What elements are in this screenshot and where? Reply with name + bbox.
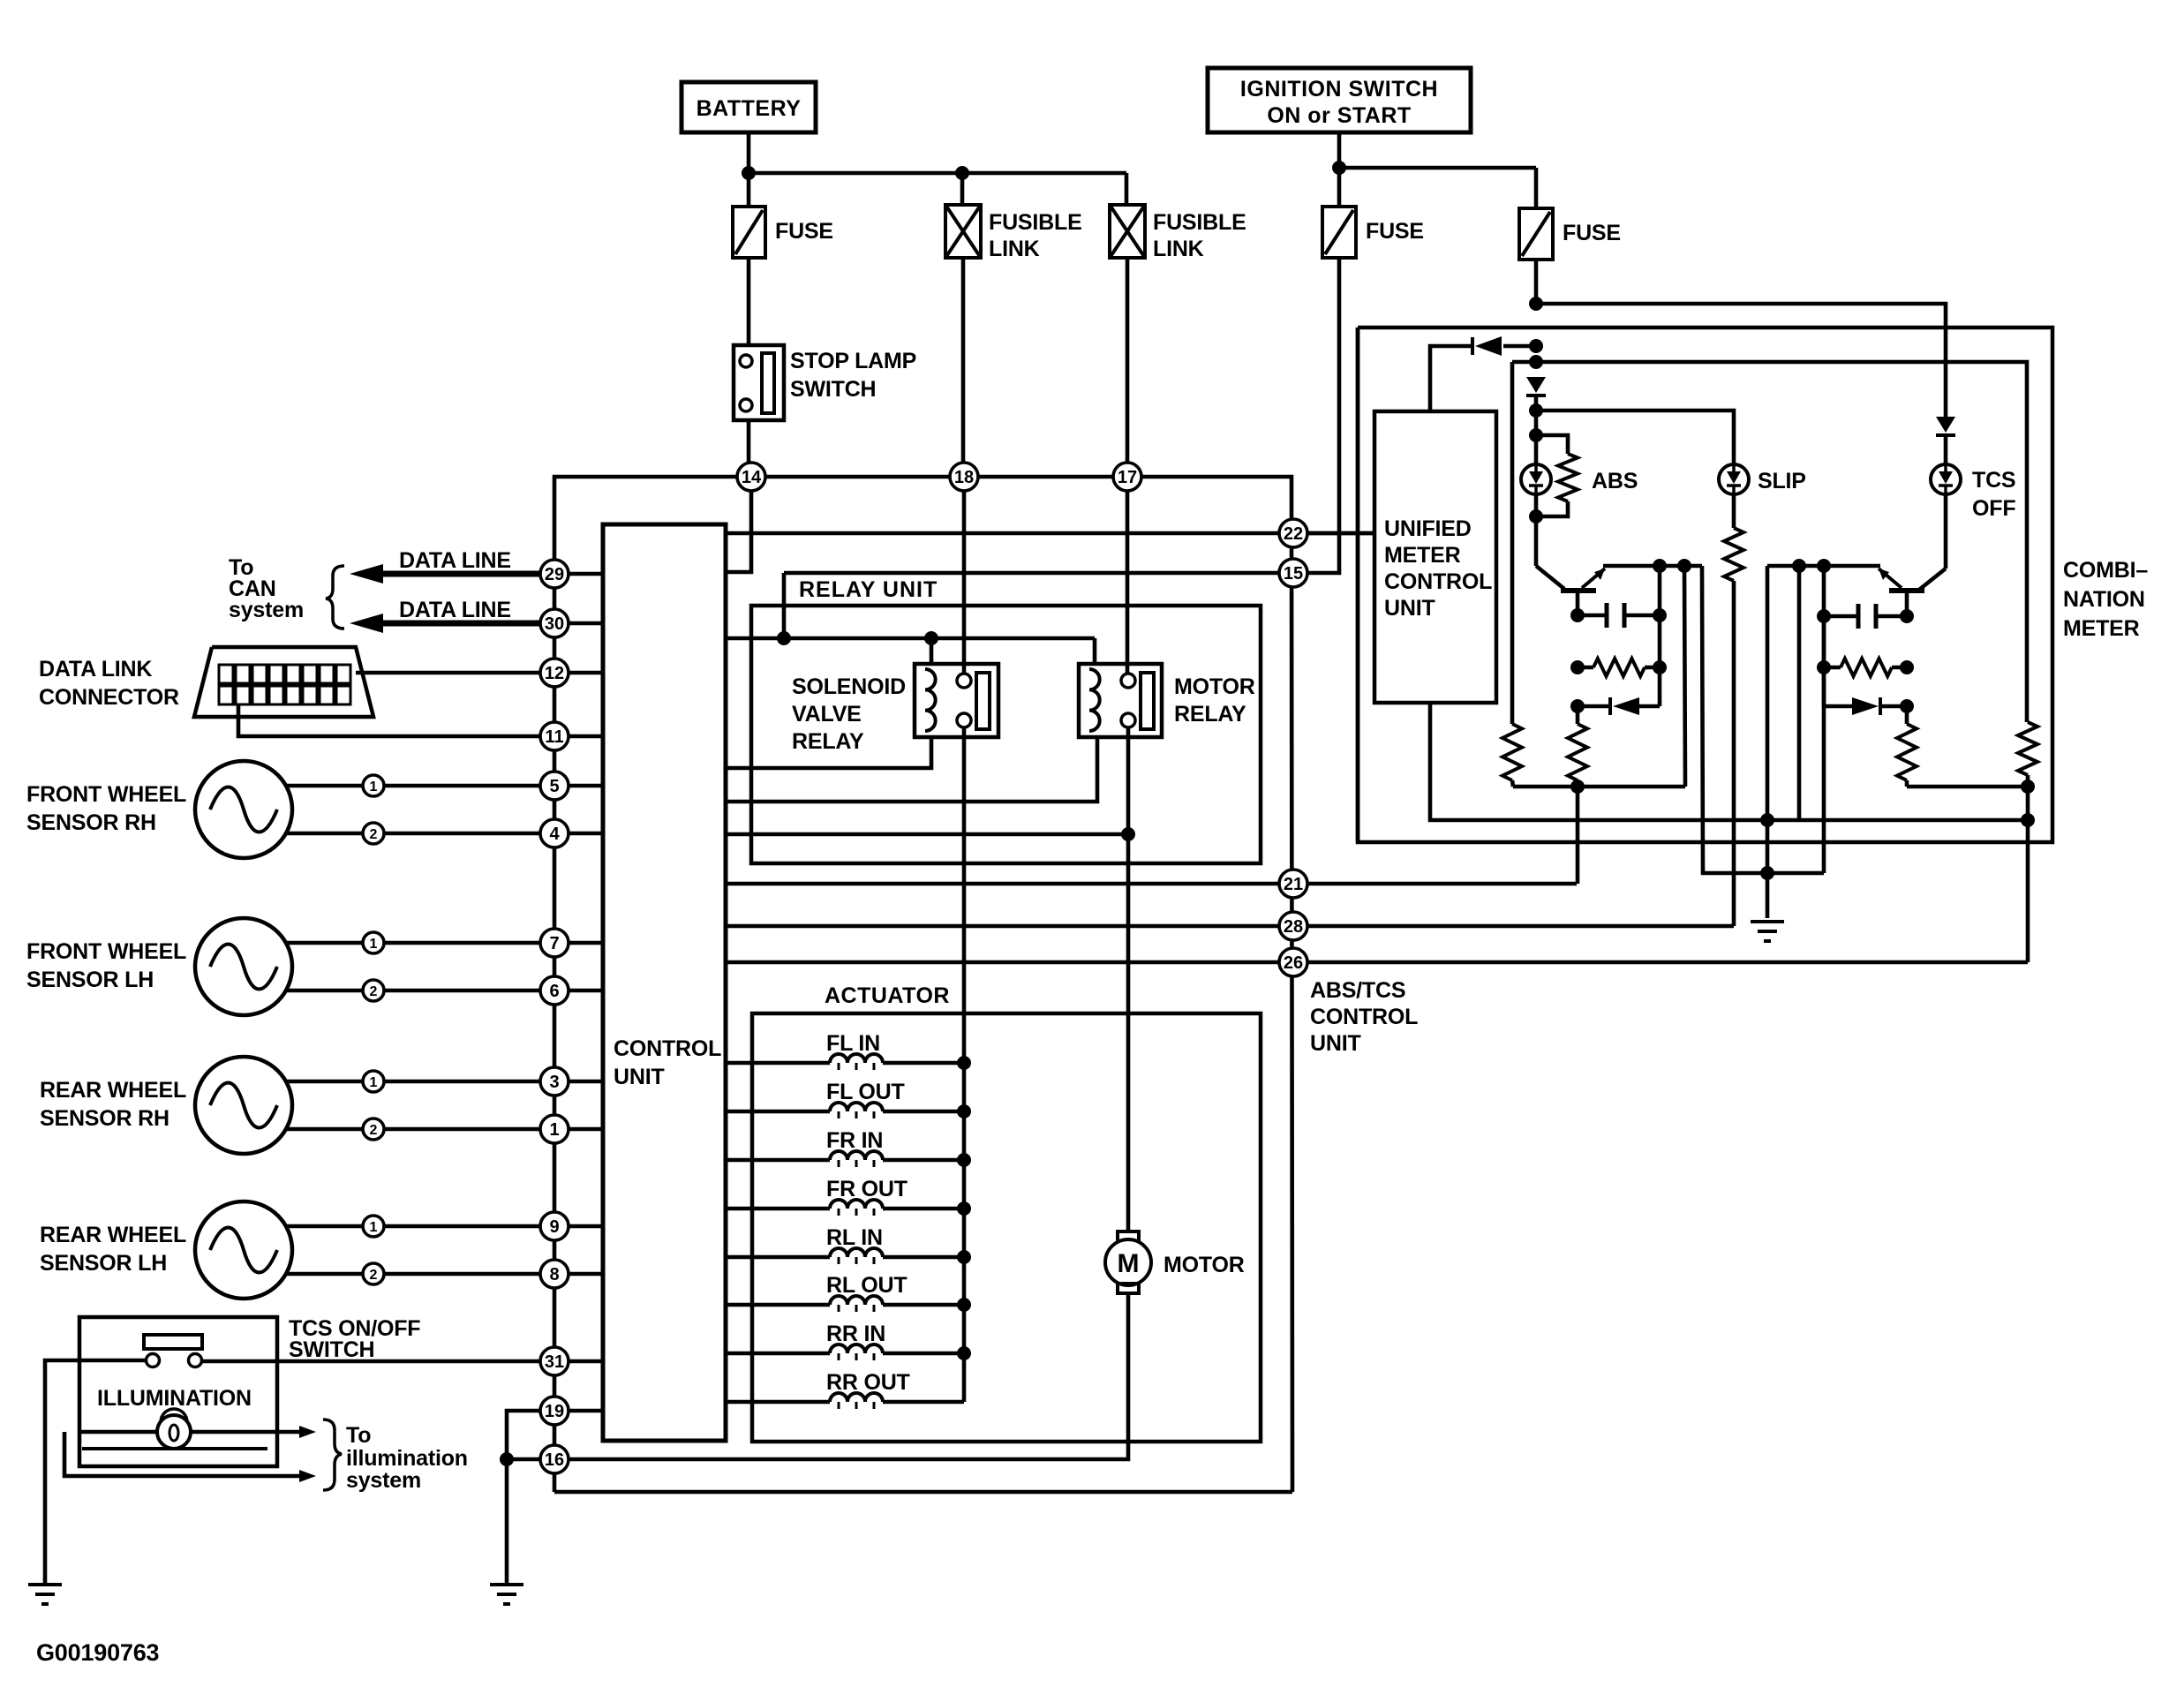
svg-text:17: 17	[1118, 468, 1137, 487]
arrow to illumination 2	[299, 1470, 316, 1482]
svg-text:11: 11	[545, 727, 563, 747]
wire RWS-LH 1	[286, 1224, 363, 1229]
svg-text:RL OUT: RL OUT	[826, 1273, 907, 1298]
svg-text:TCS: TCS	[1972, 468, 2015, 493]
wire 21 row	[726, 882, 1577, 886]
fuse F3	[1322, 207, 1356, 258]
wire Q1 emitter rail	[1603, 564, 1702, 569]
solenoid RL IN	[726, 1255, 830, 1260]
node Q1 bottom junction	[1570, 779, 1585, 794]
wire pin 8 to control unit	[554, 1272, 603, 1277]
wire Q1 base	[1576, 591, 1580, 615]
svg-text:FL IN: FL IN	[826, 1031, 880, 1056]
solenoid FR OUT	[726, 1207, 830, 1211]
solenoid RR OUT	[726, 1400, 830, 1405]
capacitor C1	[1578, 614, 1607, 618]
svg-text:illumination: illumination	[346, 1446, 468, 1471]
solenoid FL IN	[726, 1061, 830, 1066]
node solenoid relay coil tap	[924, 631, 938, 645]
node rail dot 1908	[1677, 559, 1691, 573]
svg-text:UNIFIED: UNIFIED	[1384, 516, 1472, 541]
svg-text:CONTROL: CONTROL	[614, 1036, 721, 1061]
transistor Q2	[1889, 588, 1924, 593]
svg-text:RELAY: RELAY	[1174, 702, 1246, 727]
node ground bus 929	[1760, 813, 1774, 827]
wire FL2 to pin 17	[1126, 258, 1130, 463]
illumination inner line	[82, 1447, 267, 1450]
solenoid FR IN	[726, 1158, 830, 1163]
stop lamp switch S1	[734, 345, 784, 420]
actuator box	[752, 1013, 1261, 1442]
pin 15	[1279, 559, 1307, 587]
capacitor C2	[1878, 614, 1907, 619]
wire Q1 base net down	[1576, 706, 1580, 724]
wire Q2 base	[1905, 591, 1909, 616]
wire data line 29 arrow	[364, 571, 540, 577]
svg-text:SOLENOID: SOLENOID	[792, 674, 906, 699]
wire TCS switch to ground	[45, 1360, 147, 1585]
wire SLIP resistor to pin 28	[1732, 581, 1736, 926]
TCS switch slider	[144, 1335, 202, 1349]
wire unified box bottom drop	[1430, 703, 2028, 820]
wire FWS-RH 2	[286, 832, 363, 836]
solenoid FL OUT	[726, 1110, 830, 1114]
wire control unit to motor line	[726, 832, 1128, 837]
svg-text:REAR WHEEL: REAR WHEEL	[40, 1223, 186, 1247]
svg-text:FUSIBLE: FUSIBLE	[989, 210, 1082, 235]
wire FWS-RH 1	[286, 784, 363, 788]
wire pin 1 to control unit	[554, 1127, 603, 1132]
node C2 left	[1817, 609, 1831, 623]
front wheel sensor RH	[195, 761, 292, 858]
svg-text:30: 30	[545, 614, 564, 634]
node 2297-929	[2021, 813, 2035, 827]
node R1 left	[1570, 660, 1585, 674]
svg-text:15: 15	[1284, 564, 1303, 584]
wire F1 to stop lamp switch	[747, 258, 751, 345]
wire R6 bottom to 891	[2026, 775, 2030, 787]
pin 30	[540, 609, 569, 637]
wire pin 16 stub	[507, 1457, 540, 1462]
svg-text:SWITCH: SWITCH	[790, 377, 876, 402]
wire fusible link 2 drop	[1125, 173, 1129, 205]
svg-text:UNIT: UNIT	[614, 1065, 665, 1089]
resistor R-ABS	[1558, 454, 1578, 501]
diode D4	[1824, 704, 1852, 709]
resistor R5	[1897, 724, 1917, 780]
svg-text:LINK: LINK	[1153, 237, 1204, 261]
svg-text:SENSOR RH: SENSOR RH	[26, 810, 156, 835]
fuse F1	[733, 207, 765, 258]
node Q2 bottom right junction	[2021, 779, 2035, 794]
wire comb-left lower	[1356, 533, 1360, 842]
pin 21	[1279, 870, 1307, 898]
svg-text:system: system	[229, 598, 304, 622]
svg-text:SENSOR RH: SENSOR RH	[40, 1106, 169, 1131]
svg-text:FL OUT: FL OUT	[826, 1080, 905, 1104]
ABS LED	[1521, 464, 1551, 494]
solenoid RR IN	[726, 1352, 830, 1356]
pin 14	[737, 463, 765, 491]
wire connector to pin 11	[238, 704, 540, 736]
wire motor relay coil drop	[1093, 638, 1097, 664]
wire 28 row	[726, 924, 1734, 929]
pin 1	[540, 1115, 569, 1143]
control unit box	[603, 524, 726, 1441]
svg-text:1: 1	[370, 1075, 378, 1090]
svg-text:REAR WHEEL: REAR WHEEL	[40, 1078, 186, 1103]
node spine 344	[1529, 297, 1543, 311]
node R1 right	[1653, 660, 1667, 674]
node Q1 base node	[1570, 608, 1585, 622]
fusible link FL1	[945, 205, 981, 258]
svg-text:ON or START: ON or START	[1267, 103, 1411, 128]
TCS on/off switch box	[79, 1317, 277, 1466]
svg-text:SWITCH: SWITCH	[289, 1337, 374, 1362]
pin 12	[540, 659, 569, 687]
svg-text:SENSOR LH: SENSOR LH	[26, 968, 154, 992]
wire motor to pin 16 row	[569, 1293, 1128, 1459]
wire R5 to bottom row	[1905, 780, 1909, 787]
wire RWS-RH 1	[286, 1080, 363, 1084]
pin 26	[1279, 948, 1307, 976]
wire lamp to arrows	[79, 1430, 157, 1435]
svg-text:6: 6	[549, 982, 559, 1001]
pin 17	[1113, 463, 1141, 491]
wire 2038 drop	[1797, 566, 1802, 820]
node spine 493	[1529, 428, 1543, 442]
wire Q2 emitter rail	[1767, 564, 1880, 569]
svg-text:UNIT: UNIT	[1384, 596, 1435, 621]
wire SLIP LED to resistor	[1732, 494, 1736, 528]
relay unit box	[751, 606, 1261, 863]
data link connector	[194, 647, 373, 717]
node R4 right	[1900, 660, 1914, 674]
wire pin 29 to control unit	[554, 572, 603, 576]
svg-text:RR OUT: RR OUT	[826, 1370, 910, 1395]
node relay feed junction	[777, 631, 791, 645]
wire TCS switch to pin 31	[202, 1359, 540, 1364]
node rails link	[1760, 866, 1774, 880]
wire TCS LED to Q2	[1944, 494, 1948, 569]
wire rail2 corner drop to ground bus	[1766, 566, 1770, 918]
wire pin 18 line	[962, 491, 967, 674]
brace illumination	[323, 1420, 342, 1490]
svg-text:RL IN: RL IN	[826, 1225, 883, 1250]
svg-text:18: 18	[954, 468, 974, 487]
node battery bus junction	[742, 166, 756, 180]
diode D1	[1471, 337, 1474, 355]
svg-text:SENSOR LH: SENSOR LH	[40, 1251, 167, 1276]
svg-text:DATA LINE: DATA LINE	[399, 598, 511, 622]
wire control unit to pin 22	[726, 531, 1374, 536]
wire pin 15 to relay coils feed	[784, 571, 1292, 576]
svg-text:FRONT WHEEL: FRONT WHEEL	[26, 782, 186, 807]
node ignition bus junction	[1332, 161, 1346, 175]
svg-text:CONNECTOR: CONNECTOR	[39, 685, 179, 710]
wire pin 31 to control unit	[554, 1359, 603, 1364]
pin 7	[540, 929, 569, 957]
wire to fuse F4	[1534, 168, 1539, 208]
svg-text:2: 2	[370, 1268, 378, 1283]
wire fusible link 1 drop	[960, 173, 965, 205]
wire spine to diode D1	[1503, 344, 1536, 349]
resistor R3	[1502, 724, 1522, 780]
wire pin 17 motor line	[1126, 491, 1130, 674]
svg-text:2: 2	[370, 1123, 378, 1138]
wire battery to bus	[747, 132, 751, 173]
svg-text:FUSIBLE: FUSIBLE	[1153, 210, 1246, 235]
wire Q2 bottom row	[1907, 785, 2028, 789]
wire Q1 net right vertical	[1658, 566, 1662, 706]
rear wheel sensor RH	[195, 1057, 292, 1154]
pin 22	[1279, 519, 1307, 547]
ignition switch box	[1208, 68, 1471, 132]
svg-text:FUSE: FUSE	[1563, 221, 1621, 245]
svg-text:16: 16	[545, 1450, 564, 1470]
motor relay RY2 contacts	[1121, 674, 1135, 688]
svg-text:CONTROL: CONTROL	[1310, 1005, 1418, 1029]
wire relay coil bus	[726, 636, 1095, 641]
wire Q2 collector	[1919, 569, 1946, 590]
wire spine to R-ABS	[1536, 435, 1568, 454]
combination meter box	[1358, 328, 2052, 842]
wire 2066 drop	[1822, 616, 1826, 873]
svg-text:FUSE: FUSE	[1366, 219, 1424, 244]
wire ignition down	[1337, 132, 1342, 168]
pin 9	[540, 1212, 569, 1240]
wire pin 12 to control unit	[554, 671, 603, 675]
unified meter control unit box	[1374, 411, 1496, 703]
wire pin 30 to control unit	[554, 621, 603, 626]
svg-text:ACTUATOR: ACTUATOR	[825, 983, 950, 1008]
svg-text:FR IN: FR IN	[826, 1128, 883, 1153]
wire 2297 down	[2026, 787, 2030, 962]
svg-text:19: 19	[545, 1402, 564, 1421]
wire solenoid relay coil return	[726, 737, 931, 768]
node spine 410	[1529, 355, 1543, 369]
node R4 left	[1817, 660, 1831, 674]
pin 28	[1279, 912, 1307, 940]
wire pin 5 to control unit	[554, 784, 603, 788]
wire D1 to unified box	[1430, 346, 1472, 411]
fuse F4	[1519, 208, 1553, 260]
pin 3	[540, 1067, 569, 1096]
wire Q1 bottom row	[1513, 785, 1685, 789]
svg-text:FUSE: FUSE	[775, 219, 833, 244]
wire pin 6 to control unit	[554, 989, 603, 993]
wire ABS LED to node	[1534, 494, 1539, 516]
wire comb-left drop	[1356, 328, 1360, 533]
svg-text:ABS/TCS: ABS/TCS	[1310, 978, 1405, 1003]
wire spine to TCS branch	[1536, 304, 1946, 417]
svg-text:RELAY UNIT: RELAY UNIT	[799, 577, 938, 602]
svg-text:RELAY: RELAY	[792, 729, 864, 754]
wire connector to pin 12	[356, 671, 540, 675]
svg-text:ABS: ABS	[1592, 469, 1638, 493]
svg-text:5: 5	[549, 777, 559, 796]
node pin16 ground junction	[500, 1452, 514, 1466]
fusible link FL2	[1110, 205, 1145, 258]
wire Q2 base net down	[1905, 706, 1909, 724]
svg-text:4: 4	[549, 825, 560, 844]
wire spine diode to LED	[1534, 395, 1539, 464]
wire FL1 to pin 18	[961, 258, 966, 463]
wire Q2 net left vertical	[1822, 566, 1826, 706]
pin 19	[540, 1397, 569, 1425]
resistor R-SLIP	[1724, 528, 1743, 581]
svg-text:8: 8	[549, 1265, 559, 1284]
wire RWS-LH 2	[286, 1272, 363, 1277]
svg-text:29: 29	[545, 565, 564, 584]
pin 18	[950, 463, 978, 491]
svg-text:FRONT WHEEL: FRONT WHEEL	[26, 939, 186, 964]
SLIP LED	[1719, 464, 1749, 494]
wire R2 to bottom row	[1576, 780, 1580, 787]
resistor R6	[2018, 722, 2037, 775]
svg-text:1: 1	[370, 779, 378, 795]
svg-text:9: 9	[549, 1217, 559, 1237]
svg-text:LINK: LINK	[989, 237, 1040, 261]
brace CAN	[326, 566, 344, 629]
wire FWS-LH 2	[286, 989, 363, 993]
node rail2 dot 2038	[1792, 559, 1806, 573]
battery B1	[682, 82, 816, 132]
pin 16	[540, 1445, 569, 1473]
svg-text:7: 7	[549, 934, 559, 953]
node D4 right	[1900, 699, 1914, 713]
wire R4 leads	[1824, 666, 1841, 670]
svg-text:CONTROL: CONTROL	[1384, 569, 1492, 594]
arrow to illumination 1	[299, 1426, 316, 1438]
svg-text:ILLUMINATION: ILLUMINATION	[97, 1386, 252, 1411]
svg-text:31: 31	[545, 1352, 564, 1372]
svg-text:system: system	[346, 1468, 421, 1493]
wire R1 leads	[1578, 666, 1593, 670]
svg-text:1: 1	[370, 937, 378, 952]
wire RWS-RH 2	[286, 1127, 363, 1132]
motor relay RY2 coil	[1089, 669, 1100, 731]
wire motor relay coil return	[726, 737, 1097, 802]
wire bus to fuse F1	[747, 173, 751, 207]
svg-text:COMBI–: COMBI–	[2063, 558, 2148, 583]
resistor R2	[1568, 724, 1587, 780]
wire ignition bus	[1339, 166, 1536, 170]
node motor line junction	[1121, 827, 1135, 841]
svg-text:MOTOR: MOTOR	[1164, 1253, 1245, 1277]
svg-text:1: 1	[549, 1120, 559, 1140]
wire rail end drop	[1702, 566, 1824, 873]
pin 31	[540, 1347, 569, 1375]
svg-text:M: M	[1118, 1249, 1140, 1278]
wire 22 pigtail to unified box	[1307, 531, 1374, 536]
svg-text:FR OUT: FR OUT	[826, 1177, 907, 1201]
svg-text:26: 26	[1284, 953, 1303, 973]
node D3 left	[1570, 699, 1585, 713]
node C1 right	[1653, 608, 1667, 622]
node spine 585	[1529, 509, 1543, 523]
wire data line 30 arrow	[364, 621, 540, 627]
svg-text:14: 14	[742, 468, 762, 487]
wire F4 down spine	[1534, 260, 1539, 304]
wire F3 to pin 15	[1307, 258, 1339, 573]
wire solenoid relay coil top	[930, 638, 934, 664]
wire pin 19 to ground line	[507, 1411, 540, 1585]
wire pin 9 to control unit	[554, 1224, 603, 1229]
wire R3 bottom	[1512, 780, 1513, 787]
svg-text:VALVE: VALVE	[792, 702, 862, 727]
svg-text:BATTERY: BATTERY	[697, 96, 802, 121]
diode D3	[1578, 704, 1608, 709]
svg-text:STOP LAMP: STOP LAMP	[790, 349, 916, 373]
wire to fuse F3	[1337, 168, 1342, 207]
ground G1	[28, 1583, 62, 1586]
wire R3 top	[1510, 362, 1515, 724]
wire relay coil feed drop	[782, 573, 787, 638]
wire pin 14 into control unit	[726, 491, 751, 572]
svg-text:12: 12	[545, 664, 564, 683]
wire pin 19 to control unit	[554, 1409, 603, 1413]
pin 5	[540, 772, 569, 800]
svg-text:RR IN: RR IN	[826, 1322, 885, 1346]
ground G2	[490, 1583, 523, 1586]
wire FWS-LH 1	[286, 941, 363, 945]
svg-text:2: 2	[370, 984, 378, 999]
node rail2 dot 2066	[1817, 559, 1831, 573]
svg-text:SLIP: SLIP	[1758, 469, 1806, 493]
node rail dot 1880	[1653, 559, 1667, 573]
pin 6	[540, 976, 569, 1005]
svg-text:IGNITION SWITCH: IGNITION SWITCH	[1240, 77, 1438, 102]
svg-text:21: 21	[1284, 875, 1303, 894]
svg-text:1: 1	[370, 1220, 378, 1235]
svg-text:28: 28	[1284, 917, 1303, 937]
wire spine row 410	[1512, 362, 2027, 722]
svg-text:DATA LINE: DATA LINE	[399, 548, 511, 573]
svg-text:NATION: NATION	[2063, 587, 2145, 612]
solenoid valve relay RY1 box	[915, 664, 998, 737]
diode D-TCS	[1936, 417, 1955, 433]
svg-text:METER: METER	[2063, 616, 2140, 641]
resistor R4	[1841, 659, 1892, 676]
pin 8	[540, 1260, 569, 1288]
rear wheel sensor LH	[195, 1201, 292, 1299]
pin 29	[540, 560, 569, 588]
wire battery bus	[749, 171, 1126, 176]
illumination lamp	[157, 1415, 191, 1449]
ABS/TCS control unit outer box	[554, 477, 1292, 574]
svg-text:To: To	[346, 1423, 371, 1448]
motor M1	[1118, 1231, 1139, 1241]
wire TCS diode to LED	[1944, 435, 1948, 464]
solenoid RL OUT	[726, 1303, 830, 1307]
wire Q1 collector	[1534, 516, 1539, 566]
wire pin 11 to control unit	[554, 734, 603, 739]
front wheel sensor LH	[195, 918, 292, 1015]
pin 4	[540, 819, 569, 847]
pin 11	[540, 722, 569, 750]
wire pin 4 to control unit	[554, 832, 603, 836]
solenoid valve relay RY1 contacts	[957, 674, 971, 688]
node spine 392	[1529, 339, 1543, 353]
svg-text:UNIT: UNIT	[1310, 1031, 1361, 1056]
solenoid valve relay RY1 coil	[925, 669, 936, 731]
svg-text:3: 3	[549, 1073, 559, 1092]
transistor Q1	[1561, 588, 1596, 593]
svg-text:OFF: OFF	[1972, 496, 2015, 521]
svg-text:METER: METER	[1384, 543, 1461, 568]
svg-text:2: 2	[370, 827, 378, 842]
